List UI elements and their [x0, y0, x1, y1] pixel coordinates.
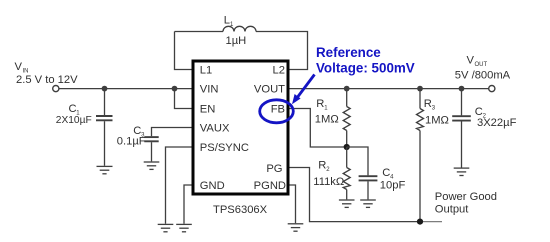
- capacitor C1 value label: [56, 103, 92, 126]
- svg-text:1µH: 1µH: [226, 35, 247, 47]
- node junction R1 top: [344, 86, 350, 92]
- wire C4 branch: [347, 147, 368, 175]
- wire inductor rail left: [175, 31, 224, 33]
- svg-text:3X22µF: 3X22µF: [477, 117, 517, 129]
- output terminal: [489, 86, 495, 92]
- input terminal: [53, 86, 59, 92]
- svg-text:R: R: [316, 98, 324, 110]
- wire input rail to VIN pin: [59, 88, 192, 90]
- wire power-good output stub: [420, 221, 442, 223]
- svg-text:2.5 V to 12V: 2.5 V to 12V: [16, 74, 78, 86]
- svg-text:V: V: [15, 61, 23, 73]
- annotation ellipse around FB: [260, 100, 294, 123]
- capacitor C4: [359, 176, 378, 199]
- svg-text:10pF: 10pF: [380, 180, 406, 192]
- wire PGND to ground: [290, 185, 296, 223]
- wire C1 branch: [104, 89, 106, 116]
- svg-text:5V /800mA: 5V /800mA: [455, 70, 511, 82]
- svg-text:Power Good: Power Good: [435, 191, 497, 203]
- ground C2: [454, 168, 470, 175]
- svg-text:VIN: VIN: [200, 84, 219, 96]
- svg-text:Reference: Reference: [316, 45, 381, 60]
- svg-text:EN: EN: [200, 104, 216, 116]
- annotation reference voltage text: [316, 45, 415, 75]
- node VIN label: [15, 61, 79, 86]
- capacitor C2: [452, 89, 471, 168]
- svg-text:R: R: [424, 98, 432, 110]
- annotation arrow to FB: [292, 75, 315, 105]
- svg-text:1MΩ: 1MΩ: [315, 114, 339, 126]
- node VOUT label: [455, 55, 511, 82]
- svg-text:PGND: PGND: [254, 180, 286, 192]
- node junction C1: [102, 86, 108, 92]
- resistor R3 ref label: [424, 98, 436, 112]
- op-amp U1 TPS6306X IC body: [193, 61, 288, 194]
- node junction R3 top: [417, 86, 423, 92]
- ground C4: [360, 200, 376, 207]
- capacitor C3: [144, 137, 158, 161]
- svg-text:R: R: [318, 159, 326, 171]
- svg-text:V: V: [467, 55, 475, 67]
- ground PGND: [288, 224, 304, 231]
- ground GND: [176, 224, 192, 231]
- resistor R1 ref label: [316, 98, 328, 112]
- svg-text:L2: L2: [273, 65, 285, 77]
- svg-text:PS/SYNC: PS/SYNC: [200, 142, 249, 154]
- svg-text:Voltage: 500mV: Voltage: 500mV: [316, 60, 415, 75]
- wire VAUX to C3: [152, 128, 192, 137]
- ground C1: [97, 166, 113, 173]
- svg-text:2X10µF: 2X10µF: [56, 115, 92, 126]
- svg-text:TPS6306X: TPS6306X: [213, 204, 268, 216]
- svg-text:VOUT: VOUT: [254, 84, 285, 96]
- node junction FB divider: [344, 144, 350, 150]
- resistor R1: [343, 89, 350, 147]
- svg-text:OUT: OUT: [475, 62, 488, 68]
- wire VOUT output rail: [290, 88, 489, 90]
- ground R2: [339, 200, 355, 207]
- svg-text:GND: GND: [200, 180, 225, 192]
- node junction PG rail: [417, 219, 423, 225]
- ground C3: [144, 162, 160, 169]
- resistor R2 ref label: [318, 159, 330, 173]
- inductor L1: [223, 26, 256, 31]
- inductor L1 ref label: [224, 15, 234, 29]
- capacitor C2 ref label: [475, 106, 487, 120]
- wire inductor rail right to L2 pin: [256, 32, 308, 70]
- resistor R3: [417, 89, 424, 222]
- node junction EN tie: [172, 86, 178, 92]
- svg-text:0.1µF: 0.1µF: [117, 136, 146, 148]
- svg-text:L1: L1: [200, 65, 212, 77]
- capacitor C3 value label: [117, 125, 146, 148]
- wire FB to divider: [290, 109, 344, 148]
- svg-text:1MΩ: 1MΩ: [425, 115, 449, 127]
- wire PG to power-good rail: [290, 168, 421, 222]
- node junction C2 top: [459, 86, 465, 92]
- svg-text:111kΩ: 111kΩ: [313, 176, 344, 188]
- capacitor C4 ref label: [382, 167, 394, 181]
- svg-text:Output: Output: [435, 203, 469, 215]
- node Power Good Output label: [435, 191, 497, 215]
- svg-text:PG: PG: [266, 163, 282, 175]
- capacitor C1: [96, 116, 113, 166]
- svg-text:VAUX: VAUX: [200, 123, 230, 135]
- resistor R2: [343, 147, 350, 199]
- wire PS/SYNC to ground: [166, 147, 192, 224]
- wire EN tie to VIN rail: [175, 89, 192, 109]
- svg-text:FB: FB: [271, 104, 285, 116]
- wire GND pin to ground: [184, 185, 192, 224]
- ground PS/SYNC: [158, 224, 174, 231]
- wire L1 pin to inductor: [175, 32, 192, 70]
